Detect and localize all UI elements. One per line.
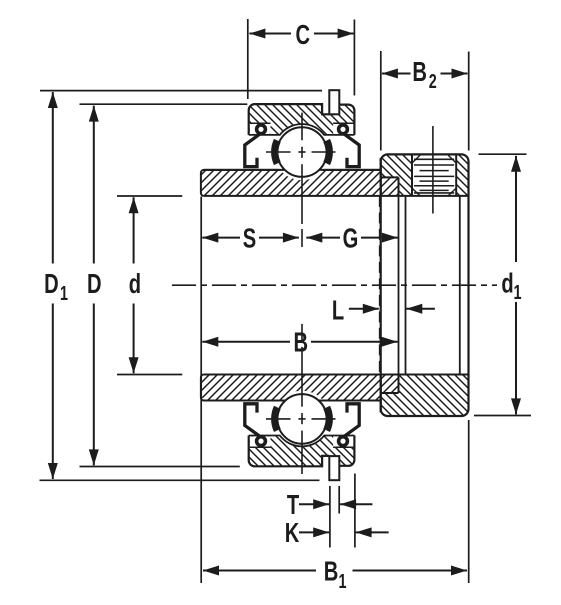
dimension G: [306, 237, 340, 239]
cage crescent right: [323, 139, 333, 165]
set screw centerline: [432, 126, 434, 214]
bottom lube fitting pin: [329, 456, 339, 480]
svg-text:C: C: [296, 20, 311, 51]
cage crescent left: [271, 406, 281, 432]
collar left face solid segments: [380, 158, 382, 196]
svg-text:G: G: [343, 223, 359, 254]
seal flinger bottom-right: [339, 404, 360, 446]
outer ring top raceway underside: [249, 124, 355, 135]
ball bottom: [277, 394, 327, 444]
inner ring top band (shaft sleeve, section hatch): [201, 170, 381, 196]
inner ring outline bottom band: [201, 375, 381, 401]
dimension S: [202, 237, 240, 239]
svg-text:B: B: [324, 557, 339, 588]
svg-text:S: S: [243, 223, 256, 254]
ball crosshair: [266, 151, 291, 153]
svg-text:K: K: [285, 518, 300, 549]
top lube fitting pin: [329, 90, 339, 114]
inner ring extension under collar, top: [381, 177, 399, 196]
D top extension line: [80, 103, 248, 105]
svg-text:L: L: [332, 295, 344, 326]
locking collar outline: [381, 154, 469, 416]
main horizontal centerline: [172, 284, 497, 286]
collar left face hidden (dashed) through bore: [379, 196, 381, 375]
housing/outer ring top section hatch: [249, 104, 355, 135]
D bottom extension line: [80, 466, 240, 468]
inner ring end face line through bore: [398, 196, 400, 375]
dimension D1: [52, 92, 54, 264]
svg-text:d: d: [501, 268, 513, 299]
dimension D: [93, 106, 95, 264]
ball crosshair: [266, 418, 291, 420]
outer ring bottom cap outline: [249, 436, 330, 467]
outer ring bottom raceway underside: [249, 436, 355, 447]
T/K extension lines: [329, 486, 331, 548]
dimension d1: [515, 156, 517, 262]
inner ring outline top band: [201, 170, 381, 196]
set screw faces and chamfers: [414, 158, 454, 160]
dimension B1: [203, 570, 316, 572]
collar bore edges: [405, 196, 407, 375]
svg-text:1: 1: [338, 570, 346, 593]
d1 bottom extension line: [474, 415, 531, 417]
seal flinger top-left: [245, 125, 266, 167]
svg-text:D: D: [44, 269, 59, 300]
D1 bottom extension line: [40, 479, 320, 481]
outer ring top cap outline: [249, 104, 330, 135]
svg-text:1: 1: [513, 280, 521, 303]
dimension B2: [382, 73, 411, 75]
lube-pin notch whites: [322, 104, 329, 114]
d bottom extension line: [117, 374, 182, 376]
D1 top extension line: [40, 90, 322, 92]
set screw threads: [414, 164, 454, 166]
cage crescent right: [323, 406, 333, 432]
shaft surface lines (bore edges of inner ring bands): [204, 169, 381, 171]
svg-text:T: T: [287, 490, 299, 521]
svg-text:D: D: [87, 269, 102, 300]
seal cavity whites: [250, 123, 271, 134]
B2 extension lines: [380, 51, 382, 151]
dimension K: [299, 531, 329, 533]
locking collar bottom band hatch: [381, 375, 469, 416]
svg-text:d: d: [129, 269, 141, 300]
inner ring extension under collar, bottom: [381, 375, 399, 394]
seal flinger top-right: [339, 125, 360, 167]
dimension L: [349, 308, 379, 310]
dimension T: [299, 503, 329, 505]
bottom seal cavity edges: [250, 446, 271, 448]
svg-text:1: 1: [60, 281, 68, 304]
top ball vertical centerline: [301, 113, 303, 141]
C extension lines: [247, 19, 249, 99]
set screw hole walls: [411, 154, 413, 196]
bottom ball vertical centerline: [301, 324, 303, 342]
top seal cavity edges: [250, 122, 271, 124]
d1 top extension line: [479, 153, 527, 155]
seal flinger bottom-left: [245, 404, 266, 446]
dimension B: [202, 341, 290, 343]
B1 right extension line: [468, 420, 470, 583]
svg-text:B: B: [412, 57, 427, 88]
collar inner step lines: [381, 176, 399, 178]
cage crescent left: [271, 139, 281, 165]
svg-text:2: 2: [429, 70, 437, 93]
dimension d: [133, 197, 135, 263]
d top extension line: [117, 195, 182, 197]
left vertical extension line (S/B/B1): [200, 197, 202, 584]
dimension C: [249, 33, 291, 35]
svg-text:B: B: [294, 327, 309, 358]
inner ring bottom band (shaft sleeve, section hatch): [201, 375, 381, 401]
locking collar top band hatch: [381, 154, 412, 196]
ball top: [277, 127, 327, 177]
housing/outer ring bottom section hatch: [249, 436, 355, 467]
